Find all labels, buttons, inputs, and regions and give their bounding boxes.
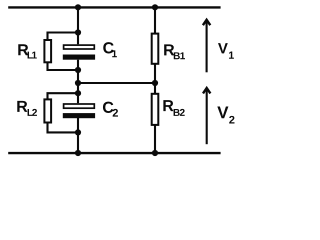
resistor RL1	[44, 40, 51, 62]
resistor RB2	[152, 94, 159, 125]
node mid-right junction	[152, 80, 158, 86]
node mid-left junction	[75, 80, 81, 86]
capacitor C1 bottom plate	[63, 55, 95, 60]
label V1	[218, 43, 234, 59]
wire R_B1 top lead	[154, 7, 156, 33]
resistor RB1	[152, 34, 159, 64]
node bottom-right junction	[152, 150, 158, 156]
wire left column lower segment	[77, 118, 79, 153]
wire bottom rail	[8, 152, 220, 154]
wire R_B2 top lead	[154, 83, 156, 93]
wire R_B1 bottom lead	[154, 64, 156, 83]
label C1	[103, 42, 117, 57]
node RL2 rejoin junction	[75, 129, 81, 135]
wire left column middle segment	[77, 60, 79, 103]
label RL2	[17, 101, 37, 116]
wire R_L1 bottom lead	[48, 63, 79, 71]
node top-right junction	[152, 4, 158, 10]
arrow V2	[203, 88, 210, 144]
capacitor C1 top plate	[64, 45, 95, 49]
wire middle connecting	[78, 82, 155, 84]
label C2	[103, 102, 118, 117]
node RL1 branch junction	[75, 29, 81, 35]
capacitor C2 top plate	[64, 104, 95, 108]
wire top rail	[8, 6, 220, 8]
wire R_B2 bottom lead	[154, 125, 156, 153]
wire R_L2 top lead	[48, 93, 79, 99]
label RL1	[18, 44, 37, 58]
label RB2	[163, 100, 184, 116]
node bottom-left junction	[75, 150, 81, 156]
node RL2 branch junction	[75, 90, 81, 96]
label V2	[217, 107, 234, 124]
node RL1 rejoin junction	[75, 67, 81, 73]
wire R_L1 top lead	[48, 33, 79, 40]
wire R_L2 bottom lead	[48, 123, 79, 132]
arrow V1	[203, 20, 210, 73]
label RB1	[164, 44, 185, 59]
node top-left junction	[75, 4, 81, 10]
capacitor C2 bottom plate	[63, 113, 95, 118]
resistor RL2	[44, 99, 51, 122]
wire left column upper segment	[77, 7, 79, 44]
